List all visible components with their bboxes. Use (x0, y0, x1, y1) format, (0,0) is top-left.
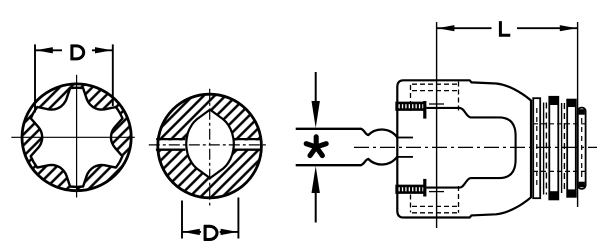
bottom bearing cap flange (423, 179, 426, 197)
top bearing cap spring (knurl) (396, 103, 423, 110)
shaft dimension: lower arrowhead (up) (312, 166, 320, 193)
collar ring 3 (567, 100, 576, 197)
shaft dimension: lower arrow stem (315, 190, 317, 223)
dimension D left: dimension line right segment (92, 49, 112, 51)
asterisk symbol (306, 137, 326, 156)
dimension D middle: label D (204, 225, 217, 241)
ball neck bottom (361, 156, 398, 165)
shaft bottom line (296, 164, 362, 166)
shaft top line (296, 128, 362, 130)
pin hole band lines (156, 138, 185, 140)
center cross left (76, 75, 78, 198)
hatched annulus middle (158, 94, 262, 198)
pin hole bands (white) (157, 140, 186, 148)
dimension D left: left extension line (34, 44, 36, 112)
main axis centerline (354, 146, 597, 148)
ball seat lines inside yoke (398, 137, 413, 139)
collar thin lines 2 (561, 103, 563, 193)
bottom bearing cap spring (knurl) (396, 186, 423, 193)
collar ring 2 (549, 97, 558, 200)
collar ring 1 (533, 98, 540, 198)
outer circle middle (158, 94, 262, 198)
collar hidden bore lines (533, 123, 585, 125)
shaft dimension: upper arrowhead (down) (312, 101, 320, 128)
dimension D middle: right extension line (237, 198, 239, 239)
ball neck top (361, 129, 398, 138)
hatched annulus left (22, 83, 131, 193)
dimension D left: dimension line left segment (35, 49, 62, 51)
dimension D middle: left arrowhead (183, 229, 200, 235)
dimension L: right extension line (577, 22, 579, 207)
hidden bearing bore bottom (412, 205, 459, 207)
shaft dimension: upper arrow stem (315, 72, 317, 104)
end disc (578, 108, 586, 189)
dimension L: right arrowhead (560, 25, 577, 31)
dimension L: left arrowhead (437, 25, 454, 31)
dimension D left: left arrowhead (36, 47, 53, 53)
dimension D middle: dimension line right segment (220, 231, 238, 233)
bore outline (lemon) (186, 110, 234, 179)
hidden bearing bore top (412, 83, 459, 85)
collar ring1 hidden center line (536, 108, 538, 188)
journal center line (L left extension) (436, 22, 438, 228)
top bearing cap flange (423, 101, 426, 119)
dimension L: dimension line right segment (517, 27, 577, 29)
yoke body outline (397, 80, 531, 217)
dimension D left: label D (71, 45, 84, 61)
yoke inner opening (U profile) (426, 108, 515, 188)
collar thin lines 1 (543, 103, 545, 195)
dimension L: label L (500, 21, 510, 35)
dimension L: dimension line left segment (437, 27, 492, 29)
spline bore outline (31, 88, 123, 187)
dimension D left: right extension line (112, 44, 114, 106)
dimension D middle: dimension line left segment (182, 231, 201, 233)
outer circle left (22, 84, 131, 191)
center lines middle (209, 89, 211, 206)
dimension D left: right arrowhead (95, 47, 112, 53)
dimension D middle: right arrowhead (221, 229, 238, 235)
dimension D middle: left extension line (181, 201, 183, 239)
